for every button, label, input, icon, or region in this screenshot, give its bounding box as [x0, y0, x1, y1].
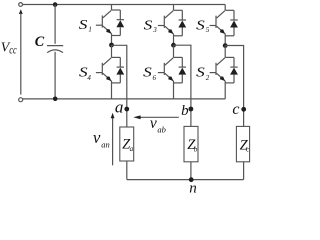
diode D3 (antiparallel with S3) [178, 10, 186, 36]
svg-text:an: an [101, 140, 110, 150]
impedance Za [120, 127, 134, 161]
diode D6 (antiparallel with S6) [178, 57, 186, 83]
diode D2 (antiparallel with S2) [230, 57, 238, 83]
wire top dc rail [23, 4, 226, 6]
node phase a midpoint (leg 1) [109, 43, 114, 48]
svg-text:S: S [144, 17, 153, 32]
svg-text:b: b [181, 103, 189, 119]
wire S5 diode loop bottom [225, 35, 234, 37]
wire phase b: leg2 midpoint to node b and load [174, 45, 191, 126]
node capacitor top junction [53, 2, 58, 7]
wire S1 diode loop bottom [112, 35, 121, 37]
svg-text:1: 1 [88, 26, 92, 34]
wire S3 collector stub [173, 5, 175, 11]
wire Za bottom to neutral [126, 161, 128, 180]
wire S5 emitter tail [224, 34, 226, 46]
svg-text:S: S [196, 65, 205, 80]
node a [124, 107, 129, 112]
terminal top-left (open circle) [19, 3, 23, 7]
wire S6 diode loop bottom [174, 82, 183, 84]
wire S2 collector stub [224, 46, 226, 58]
wire S3 diode loop top [174, 9, 183, 11]
label Vcc [1, 40, 17, 57]
wire neutral rail [127, 179, 244, 181]
label S5 [196, 17, 210, 34]
svg-text:S: S [79, 17, 88, 32]
wire S3 diode loop bottom [174, 35, 183, 37]
diode D1 (antiparallel with S1) [116, 10, 124, 36]
voltage arrow up (Vcc polarity) [19, 9, 23, 14]
wire bottom dc rail [23, 98, 225, 100]
wire S4 emitter tail [111, 81, 113, 99]
svg-text:C: C [35, 34, 45, 50]
svg-text:cc: cc [9, 43, 17, 57]
diode D5 (antiparallel with S5) [230, 10, 238, 36]
svg-text:v: v [93, 128, 101, 147]
transistor S4 (IGBT) [96, 58, 111, 81]
svg-text:4: 4 [87, 74, 91, 82]
transistor S2 (IGBT) [210, 58, 225, 81]
svg-text:a: a [115, 98, 124, 117]
svg-text:n: n [189, 181, 197, 194]
wire S4 diode loop bottom [112, 82, 121, 84]
svg-text:S: S [196, 17, 205, 32]
svg-text:ab: ab [157, 125, 166, 135]
label S1 [79, 17, 92, 34]
wire phase a: leg1 midpoint to node a and load [112, 45, 127, 127]
node n [189, 177, 194, 182]
svg-text:v: v [150, 115, 157, 132]
svg-text:5: 5 [206, 26, 210, 34]
node b [189, 107, 194, 112]
arrow v_an (pointing up alongside Za) [111, 113, 115, 166]
wire S1 diode loop top [112, 9, 121, 11]
wire S2 diode loop bottom [225, 82, 234, 84]
wire phase c: leg3 midpoint to node c and load [225, 46, 243, 127]
wire S6 diode loop top [174, 56, 183, 58]
diode D4 (antiparallel with S4) [116, 57, 124, 83]
svg-text:2: 2 [206, 74, 210, 82]
node c [241, 107, 246, 112]
wire S6 collector stub [173, 45, 175, 57]
label S2 [196, 65, 210, 82]
wire left vertical (Vcc) [20, 13, 22, 95]
label S6 [143, 65, 156, 82]
wire S2 emitter tail [224, 81, 226, 99]
svg-text:3: 3 [152, 26, 157, 34]
node capacitor bottom junction [53, 97, 58, 102]
wire S6 emitter tail [173, 81, 175, 99]
transistor S3 (IGBT) [158, 11, 173, 34]
wire Zb bottom to neutral [190, 162, 192, 180]
wire S1 collector stub [111, 5, 113, 11]
transistor S6 (IGBT) [158, 58, 173, 81]
wire S3 emitter tail [173, 34, 175, 46]
impedance Zc [236, 126, 250, 161]
wire S4 collector stub [111, 45, 113, 57]
node phase c midpoint (leg 3) [223, 43, 228, 48]
svg-text:c: c [232, 101, 239, 118]
svg-text:S: S [143, 65, 152, 80]
wire Zc bottom to neutral [243, 162, 245, 180]
wire S5 diode loop top [225, 9, 234, 11]
svg-text:a: a [130, 145, 134, 153]
terminal bottom-left (open circle) [19, 98, 23, 102]
svg-text:6: 6 [153, 74, 157, 82]
label S4 [79, 65, 91, 82]
wire S2 diode loop top [225, 56, 234, 58]
impedance Zb [184, 126, 198, 161]
capacitor C [47, 5, 63, 99]
wire S5 collector stub [224, 5, 226, 11]
svg-text:b: b [194, 145, 198, 153]
wire S4 diode loop top [112, 56, 121, 58]
label v_an [93, 128, 110, 150]
node phase b midpoint (leg 2) [171, 43, 176, 48]
arrow v_ab (pointing left from b toward a) [133, 115, 179, 119]
transistor S5 (IGBT) [210, 11, 225, 34]
transistor S1 (IGBT) [96, 10, 111, 33]
label v_ab [150, 115, 166, 135]
label S3 [144, 17, 158, 34]
wire S1 emitter tail [111, 33, 113, 45]
